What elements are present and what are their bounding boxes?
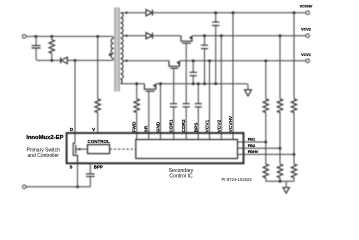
wire: clamp bottom rail xyxy=(39,59,60,61)
wire: V-pin vertical upper xyxy=(97,36,99,98)
wire: secondary tap 3 xyxy=(123,60,169,62)
node: VCV2 divider junction xyxy=(279,34,282,37)
resistor: VCV1 upper divider xyxy=(263,99,268,113)
svg-text:D: D xyxy=(70,127,73,132)
svg-text:VCV1: VCV1 xyxy=(301,53,311,57)
transistor Q1 (SR MOSFET) xyxy=(144,84,156,92)
node: clamp cap junction xyxy=(34,35,37,38)
node: FB2 junction xyxy=(279,147,282,150)
diode: clamp diode (cathode left) xyxy=(61,57,112,63)
wire: VCV1 pin stub xyxy=(209,61,211,140)
svg-text:VCVHV: VCVHV xyxy=(228,115,234,132)
svg-text:FB1: FB1 xyxy=(248,137,256,142)
svg-text:BPS: BPS xyxy=(193,122,199,133)
resistor: clamp resistor xyxy=(49,36,54,60)
svg-text:FBHV: FBHV xyxy=(248,149,259,154)
transformer secondary winding xyxy=(120,13,123,84)
op: secondary control IC box xyxy=(136,140,238,159)
node: VCV1 cap top junction xyxy=(192,59,195,62)
capacitor: BPS decoupling cap xyxy=(195,84,202,140)
svg-text:CDR1: CDR1 xyxy=(169,119,175,132)
ground: secondary ground arrow xyxy=(245,90,252,96)
node: tap2 dot xyxy=(125,35,127,37)
wire: FWD pin stub xyxy=(136,112,138,139)
resistor: VCVHV upper divider xyxy=(291,99,296,113)
ground: output divider ground arrow xyxy=(283,188,289,194)
svg-text:BPP: BPP xyxy=(94,165,103,170)
output terminal VCV1 xyxy=(306,59,310,63)
diode D1 (VCVHV rectifier) xyxy=(146,10,153,16)
svg-text:PI-9724-101923: PI-9724-101923 xyxy=(222,177,253,182)
capacitor: BPP cap xyxy=(86,163,95,187)
svg-text:VCVHV: VCVHV xyxy=(300,5,313,9)
resistor: V pin line sense resistor xyxy=(95,99,100,113)
wire: rail2 VCV2 left segment xyxy=(153,35,181,37)
wire: secondary tap 2 xyxy=(123,35,146,37)
wire: VCV2 divider mid xyxy=(279,112,281,164)
node: tap1 dot xyxy=(125,12,127,14)
svg-text:SR: SR xyxy=(144,125,150,132)
wire: VCV2 pin stub xyxy=(220,36,222,140)
svg-text:CONTROL: CONTROL xyxy=(87,139,109,144)
wire: VCVHV pin stub xyxy=(232,13,234,140)
capacitor: CDR2 coupling cap xyxy=(183,104,190,140)
node: clamp bottom junction xyxy=(50,59,53,62)
node: VCVHV pin junction xyxy=(232,11,235,14)
capacitor: CDR1 coupling cap xyxy=(170,104,177,140)
wire: VCV2 divider upper xyxy=(279,36,281,99)
wire: secondary ground rail xyxy=(156,84,248,90)
wire: VCV1 divider bottom xyxy=(265,178,267,182)
svg-text:GND: GND xyxy=(156,121,162,132)
node: GND pin junction xyxy=(159,82,162,85)
transistor: primary power MOSFET xyxy=(73,143,87,163)
node: BPS cap top junction xyxy=(197,82,200,85)
wire: secondary bottom return xyxy=(122,83,145,85)
wire: secondary tap 1 (HV) xyxy=(121,12,146,14)
capacitor: clamp cap xyxy=(32,36,41,60)
node: VCVHV cap bottom junction xyxy=(214,82,217,85)
wire: bottom ground stub xyxy=(285,181,287,187)
wire: FluxLink dashed line xyxy=(110,148,136,150)
svg-text:CDR2: CDR2 xyxy=(181,119,187,132)
wire: rail3 VCV1 right segment xyxy=(180,60,306,62)
wire: CDR2 gate line xyxy=(185,43,187,103)
resistor: FBHV lower divider xyxy=(291,164,296,178)
output terminal VCV2 xyxy=(306,34,310,38)
svg-text:VCV1: VCV1 xyxy=(205,120,211,133)
svg-text:V: V xyxy=(92,127,95,132)
transformer primary polarity dot xyxy=(109,53,112,56)
node: tap3 dot xyxy=(125,60,127,62)
transistor Q3 (VCV1 series MOSFET) xyxy=(169,61,180,69)
wire: drain vertical to D pin xyxy=(74,60,76,143)
node: FB1 junction xyxy=(264,141,267,144)
op: package box (InnoMux2-EP) xyxy=(67,133,244,163)
capacitor: VCVHV output cap xyxy=(212,13,219,84)
svg-text:Control IC: Control IC xyxy=(169,174,193,180)
svg-text:VCV2: VCV2 xyxy=(301,28,311,32)
wire: VCV1 divider mid xyxy=(265,112,267,164)
wire: VCV1 divider upper xyxy=(265,61,267,99)
wire: rail1 VCVHV xyxy=(153,12,306,14)
node: VCV2 cap top junction xyxy=(203,34,206,37)
wire: divider bottom rail xyxy=(266,180,294,182)
input terminal - (bottom left) xyxy=(22,185,26,189)
node: VCV1 pin junction xyxy=(208,59,211,62)
wire: input top rail xyxy=(26,35,111,37)
wire: VCVHV divider mid xyxy=(293,112,295,164)
node: VCV1 cap bottom junction xyxy=(192,82,195,85)
wire: FB1 line xyxy=(238,141,266,143)
node: bottom rail junction xyxy=(279,180,282,183)
svg-text:and Controller: and Controller xyxy=(27,153,59,159)
transformer primary winding xyxy=(111,36,114,60)
node: drain junction xyxy=(74,59,77,62)
resistor: FB2 lower divider xyxy=(277,164,282,178)
input terminal + (top left) xyxy=(22,35,26,39)
op: CONTROL block box xyxy=(88,145,110,154)
wire: SR gate line xyxy=(148,91,150,139)
transformer T1 core xyxy=(114,7,119,91)
svg-text:InnoMux2-EP: InnoMux2-EP xyxy=(26,135,63,141)
transistor Q2 (VCV2 series MOSFET) xyxy=(181,36,192,44)
wire: primary bottom rail xyxy=(26,186,90,188)
resistor: FB1 lower divider xyxy=(263,164,268,178)
node: S junction on bottom rail xyxy=(76,185,79,188)
wire: FBHV line xyxy=(238,153,295,155)
wire: CDR1 gate line xyxy=(173,68,175,103)
svg-text:S: S xyxy=(70,165,73,170)
svg-text:FB2: FB2 xyxy=(248,143,256,148)
node: VCV2 cap bottom junction xyxy=(203,82,206,85)
wire: FB2 line xyxy=(238,147,281,149)
diode D2 (VCV2 rectifier) xyxy=(146,33,153,39)
wire: FWD pin line xyxy=(136,84,138,99)
svg-text:VCV2: VCV2 xyxy=(216,120,222,133)
node: VCV2 pin junction xyxy=(220,34,223,37)
resistor: FWD resistor xyxy=(134,99,139,113)
capacitor: VCV1 output cap xyxy=(190,61,197,84)
wire: VCVHV divider bottom xyxy=(293,178,295,182)
wire: VCV2 divider bottom xyxy=(279,178,281,182)
node: VCVHV divider junction xyxy=(293,11,296,14)
wire: VCVHV divider upper xyxy=(293,13,295,99)
node: VCVHV cap top junction xyxy=(214,11,217,14)
resistor: VCV2 upper divider xyxy=(277,99,282,113)
wire: GND pin stub xyxy=(160,84,162,140)
wire: V-pin vertical lower xyxy=(97,112,99,133)
wire: rail2 VCV2 right segment xyxy=(192,35,306,37)
svg-text:FWD: FWD xyxy=(132,121,138,132)
node: V-pin resistor junction xyxy=(96,35,99,38)
node: FWD junction xyxy=(135,82,138,85)
capacitor: VCV2 output cap xyxy=(201,36,208,84)
wire: S pin to bottom rail xyxy=(77,163,79,187)
node: FBHV junction xyxy=(293,153,296,156)
output terminal VCVHV xyxy=(306,11,310,15)
node: VCV1 divider junction xyxy=(264,59,267,62)
node: clamp resistor top junction xyxy=(50,35,53,38)
